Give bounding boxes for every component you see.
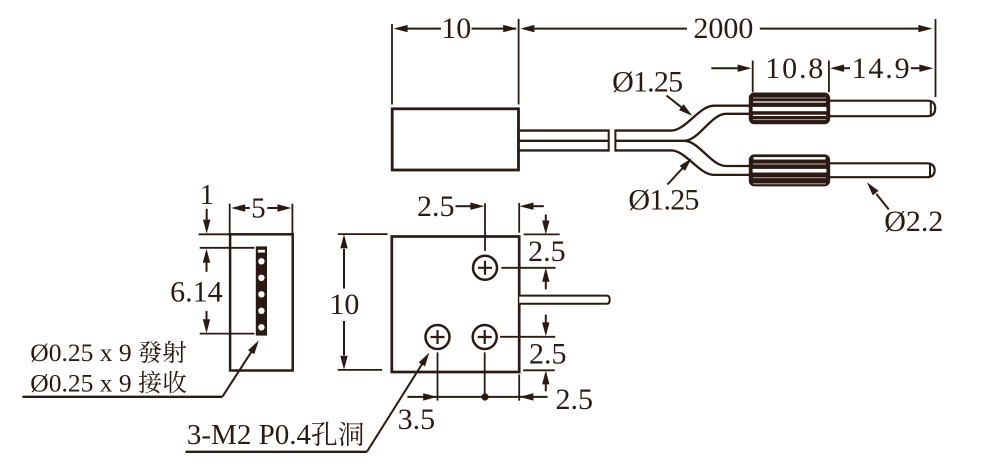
svg-text:Ø1.25: Ø1.25 [612, 66, 683, 99]
svg-text:14.9: 14.9 [852, 52, 910, 85]
leader arrow to fiber slot [222, 341, 258, 397]
extension line left of head [391, 24, 393, 105]
cable stub (front view) [519, 296, 609, 304]
extension lines for 10 dim [338, 234, 388, 370]
svg-text:5: 5 [251, 193, 266, 225]
dimension 2.5 right lower [529, 315, 567, 392]
svg-text:2.5: 2.5 [417, 190, 455, 223]
label diameter 1.25 upper [612, 66, 692, 116]
leader underline (fiber labels) [22, 396, 222, 398]
dimension 14.9 (tip length) [830, 52, 933, 85]
svg-text:Ø2.2: Ø2.2 [884, 205, 943, 238]
bottom dimension line [407, 396, 547, 398]
extension lines for 5 dim [230, 204, 293, 236]
svg-text:2.5: 2.5 [529, 338, 567, 371]
dimension 1 (slot offset) [200, 179, 215, 234]
dimension 10.8 (ferrule length) [711, 52, 823, 85]
arrow at right edge (bottom dim) [519, 393, 533, 400]
lower sensing tip tube [829, 163, 935, 177]
fiber array dots [258, 258, 264, 330]
svg-text:Ø0.25 x 9: Ø0.25 x 9 [30, 338, 131, 367]
svg-text:10: 10 [441, 12, 471, 45]
lower fiber branch (Y split) [671, 141, 751, 175]
svg-text:2.5: 2.5 [528, 235, 566, 268]
svg-text:3.5: 3.5 [398, 403, 436, 436]
mounting hole lower-left (M2) [426, 325, 450, 349]
extension line bottom right [523, 369, 555, 371]
svg-text:10.8: 10.8 [765, 52, 823, 85]
left view top edge extension [199, 233, 230, 235]
fiber array slot (black bar) [256, 247, 266, 335]
svg-text:2000: 2000 [693, 12, 753, 45]
label fiber receive (0.25 x 9) [30, 368, 186, 397]
arrow at lower-left hole center [423, 393, 437, 400]
dimension 2000 (cable length) [520, 12, 932, 45]
extension lines for 10.8 dim [753, 61, 829, 93]
svg-text:Ø0.25 x 9: Ø0.25 x 9 [30, 368, 131, 397]
duplex cable (3 lines, left segment) [519, 129, 609, 151]
extension line top right [524, 233, 560, 235]
extension lines for 6.14 dim [200, 248, 255, 334]
svg-text:10: 10 [329, 288, 359, 321]
dimension 10 (head width) [394, 12, 518, 45]
svg-text:1: 1 [200, 179, 215, 211]
hole centerlines [438, 203, 556, 400]
label diameter 1.25 lower [628, 158, 699, 216]
upper sensing tip tube [829, 101, 935, 117]
mounting hole top (M2) [473, 256, 497, 280]
dimension 10 (body height) [329, 234, 359, 369]
dimension 2.5 right upper [528, 215, 566, 290]
label fiber emit (0.25 x 9) [30, 338, 186, 367]
dimension 6.14 (slot length) [170, 249, 223, 334]
svg-text:Ø1.25: Ø1.25 [628, 183, 699, 216]
extension line right of head [518, 19, 520, 105]
lower crimp ferrule (knurled sleeve) [750, 155, 829, 185]
dimension 2.5 top (hole to edge) [417, 190, 544, 223]
front view body outline [392, 237, 519, 373]
duplex cable (right segment after break) [615, 129, 684, 151]
svg-text:2.5: 2.5 [555, 383, 593, 416]
extension line far right (cable end) [935, 19, 937, 97]
label diameter 2.2 (tip) [867, 182, 943, 238]
svg-text:3-M2 P0.4: 3-M2 P0.4 [187, 419, 312, 451]
svg-text:6.14: 6.14 [170, 275, 223, 308]
left view body outline [230, 234, 293, 370]
extension line right edge down [518, 375, 520, 401]
leader underline (3-M2 label) [186, 451, 367, 453]
leader arrow to lower-left hole [367, 353, 429, 452]
dimension 5 (face width) [231, 193, 291, 225]
sensor head body (side view) [392, 109, 518, 170]
upper fiber branch (Y split) [671, 106, 751, 141]
upper crimp ferrule (knurled sleeve) [750, 94, 829, 124]
mounting hole lower-right (M2) [473, 325, 497, 349]
junction dot at lower-right hole center [481, 393, 488, 400]
extension line right edge up [518, 203, 520, 233]
label 3-M2 holes [187, 419, 363, 451]
